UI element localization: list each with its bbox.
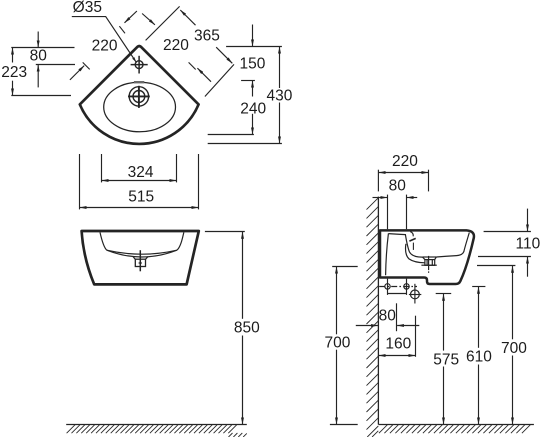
dimension 850 upper arrow xyxy=(242,232,244,319)
drain axis vertical xyxy=(428,256,430,270)
dimension 220 left lower arrow xyxy=(70,66,84,80)
basin outline top view xyxy=(80,46,199,144)
drain trap inner verticals xyxy=(427,260,432,266)
drain trap square xyxy=(135,259,145,266)
svg-text:223: 223 xyxy=(1,64,27,81)
faucet hole hook xyxy=(410,232,413,237)
extension 110 bottom xyxy=(478,256,531,258)
labels top view xyxy=(1,0,292,205)
dimension 700 left upper arrow xyxy=(336,267,338,335)
extension 220 wall xyxy=(377,170,379,192)
svg-text:515: 515 xyxy=(128,188,154,205)
extension 160 right xyxy=(415,316,417,357)
dimension 220 right lower arrow xyxy=(197,68,211,82)
dimension 220 right upper arrow xyxy=(142,14,155,25)
svg-text:700: 700 xyxy=(324,334,350,351)
svg-text:324: 324 xyxy=(128,164,154,181)
svg-text:Ø35: Ø35 xyxy=(73,0,102,16)
front view outline xyxy=(82,231,199,284)
deck and bowl back line xyxy=(388,234,422,258)
bowl under line xyxy=(405,244,424,263)
drain center dash xyxy=(139,262,142,264)
faucet hole xyxy=(135,61,143,69)
dimension 430 lower arrow xyxy=(279,103,281,144)
tick 575 top xyxy=(436,293,452,295)
dimension 223 arrows xyxy=(12,48,14,63)
extension 80 low xyxy=(396,303,398,331)
bolt circle left xyxy=(385,284,390,289)
svg-text:220: 220 xyxy=(163,37,189,54)
extension 700 right top xyxy=(477,265,515,267)
svg-text:110: 110 xyxy=(516,236,540,253)
dimension 324 line xyxy=(102,180,177,182)
overflow slot xyxy=(134,81,144,83)
bolt vertical lower right xyxy=(406,279,408,295)
extension line apex up-right xyxy=(146,6,180,40)
dimension 365 lower arrow xyxy=(216,47,232,63)
bolt bracket line xyxy=(388,293,407,295)
dimension 610 lower arrow xyxy=(478,365,480,425)
inner rim right xyxy=(177,232,184,250)
svg-text:700: 700 xyxy=(501,340,527,357)
tick 610 top xyxy=(472,286,485,288)
extension line 240 top xyxy=(241,80,255,82)
svg-text:220: 220 xyxy=(92,37,118,54)
wall face line xyxy=(377,197,379,425)
inner back line xyxy=(386,234,389,276)
floor line right view xyxy=(378,424,534,426)
inner rim left xyxy=(100,232,107,250)
outlet axis vertical xyxy=(414,284,416,304)
dimension 110 upper arrow xyxy=(527,209,529,232)
extension tick 324 right xyxy=(176,154,178,182)
outlet axis horizontal xyxy=(409,294,421,296)
extension tick 515 right xyxy=(198,154,200,209)
dimension 700 right lower arrow xyxy=(512,356,514,425)
drain xyxy=(129,87,148,106)
leader line Ø35 xyxy=(72,17,136,63)
faucet axis vertical xyxy=(412,243,414,250)
extension tick 515 left xyxy=(79,154,81,209)
drain funnel right xyxy=(146,256,149,259)
inner rim connector xyxy=(107,250,177,254)
svg-text:610: 610 xyxy=(466,349,492,366)
dimension 220 left upper arrow xyxy=(125,11,137,23)
extension line right corner up-right xyxy=(205,64,234,96)
tick 220 right lower xyxy=(189,62,196,69)
extension line faucet horizontal xyxy=(36,64,75,66)
extension line 240 bottom xyxy=(208,134,254,136)
svg-text:575: 575 xyxy=(433,351,459,368)
side view outline xyxy=(380,230,474,284)
extension tick 324 left xyxy=(101,154,103,182)
drain funnel sides xyxy=(422,257,436,260)
tick 220 left lower xyxy=(83,62,90,69)
dimension 700 left lower arrow xyxy=(336,350,338,425)
dimension 240 down arrow xyxy=(252,114,254,134)
extension line 850 top xyxy=(205,231,245,233)
drain funnel top xyxy=(422,256,436,258)
dimension 80 top arrows xyxy=(373,197,388,199)
drain axis dash below xyxy=(428,271,430,272)
floor hatch left view xyxy=(67,425,247,437)
bolt vertical lower left xyxy=(387,279,389,295)
inner bowl bottom xyxy=(107,250,177,257)
dimension 220 line xyxy=(379,172,428,174)
faucet axis slant dash xyxy=(409,238,415,241)
hatch strokes left floor xyxy=(67,425,237,433)
wall hatch xyxy=(367,198,379,437)
extension line apex up-left xyxy=(119,26,125,33)
dimension 150/240 shared up arrow xyxy=(252,81,254,97)
extension line 430 bottom xyxy=(208,143,282,145)
dimension 160 line xyxy=(379,355,415,357)
dimension 80 left arrows xyxy=(37,32,39,48)
dimension 700 right upper arrow xyxy=(512,266,514,339)
dimension 110 lower arrow xyxy=(527,257,529,277)
bolt dash-dot centerline xyxy=(379,286,417,288)
extension line 430 top xyxy=(226,46,282,48)
extension 220 front xyxy=(428,170,430,192)
extension 700 left top xyxy=(332,266,358,268)
bolt circle right xyxy=(404,284,409,289)
drain axis horizontal xyxy=(421,264,436,266)
outlet circle xyxy=(411,290,420,299)
inner front line xyxy=(436,233,469,257)
svg-text:160: 160 xyxy=(385,335,411,352)
labels side view xyxy=(324,153,540,369)
extension line drain horizontal xyxy=(11,95,71,97)
dimension 575 lower arrow xyxy=(443,367,445,425)
dimension 575 upper arrow xyxy=(443,294,445,351)
dimension 80 low arrows xyxy=(356,325,378,327)
svg-text:150: 150 xyxy=(239,56,265,73)
dimension 430 upper arrow xyxy=(279,47,281,88)
drain centerline xyxy=(139,250,141,271)
drain funnel left xyxy=(133,256,135,259)
svg-text:850: 850 xyxy=(234,320,260,337)
floor hatch right view xyxy=(379,425,530,433)
floor stub left of wall xyxy=(330,424,358,426)
svg-text:80: 80 xyxy=(389,177,407,194)
floor line left view xyxy=(66,424,247,426)
extension 110 top xyxy=(484,231,531,233)
bolt extension upper left xyxy=(387,195,389,230)
svg-text:80: 80 xyxy=(30,47,48,64)
svg-text:80: 80 xyxy=(379,308,397,325)
svg-text:240: 240 xyxy=(240,101,266,118)
drain trap rect xyxy=(425,260,435,266)
dimension 515 line xyxy=(80,207,199,209)
dimension 850 lower arrow xyxy=(242,336,244,425)
dimension 610 upper arrow xyxy=(478,287,480,348)
hatch strokes left floor lower row xyxy=(229,433,247,437)
dimension 150 upper arrow xyxy=(252,25,254,47)
svg-text:365: 365 xyxy=(194,28,220,45)
svg-text:220: 220 xyxy=(392,153,418,170)
bolt extension upper right xyxy=(406,195,408,230)
svg-text:430: 430 xyxy=(266,88,292,105)
extension line apex horizontal (80/223 ref) xyxy=(11,47,74,49)
dimension 365 upper arrow xyxy=(180,10,195,25)
bowl ellipse xyxy=(104,82,176,132)
